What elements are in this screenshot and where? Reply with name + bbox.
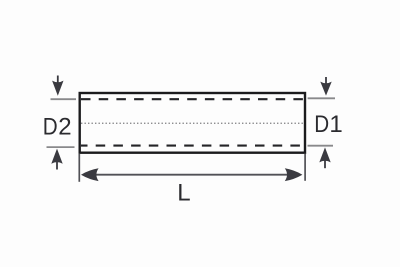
svg-text:D: D (314, 111, 329, 138)
D1 top tick (308, 97, 335, 99)
D2 top arrow (52, 76, 63, 96)
D1 top arrow (320, 77, 331, 96)
hidden line top (inner bore) (81, 98, 304, 100)
svg-text:1: 1 (329, 111, 342, 138)
hidden line bottom (inner bore) (81, 145, 304, 147)
L dimension line (90, 174, 293, 176)
svg-text:L: L (177, 180, 190, 207)
L arrowhead right (285, 168, 303, 181)
svg-text:2: 2 (58, 114, 71, 141)
svg-text:D: D (43, 113, 58, 140)
tube body outline (80, 93, 305, 153)
D2 top tick (51, 98, 77, 100)
D1 bottom arrow (319, 147, 330, 168)
D1 bottom tick (308, 145, 334, 147)
L arrowhead left (81, 168, 99, 181)
L extension line right (304, 154, 306, 181)
D2 bottom tick (47, 146, 75, 148)
centerline (81, 122, 304, 124)
L extension line left (78, 154, 80, 182)
D2 bottom arrow (51, 149, 62, 170)
